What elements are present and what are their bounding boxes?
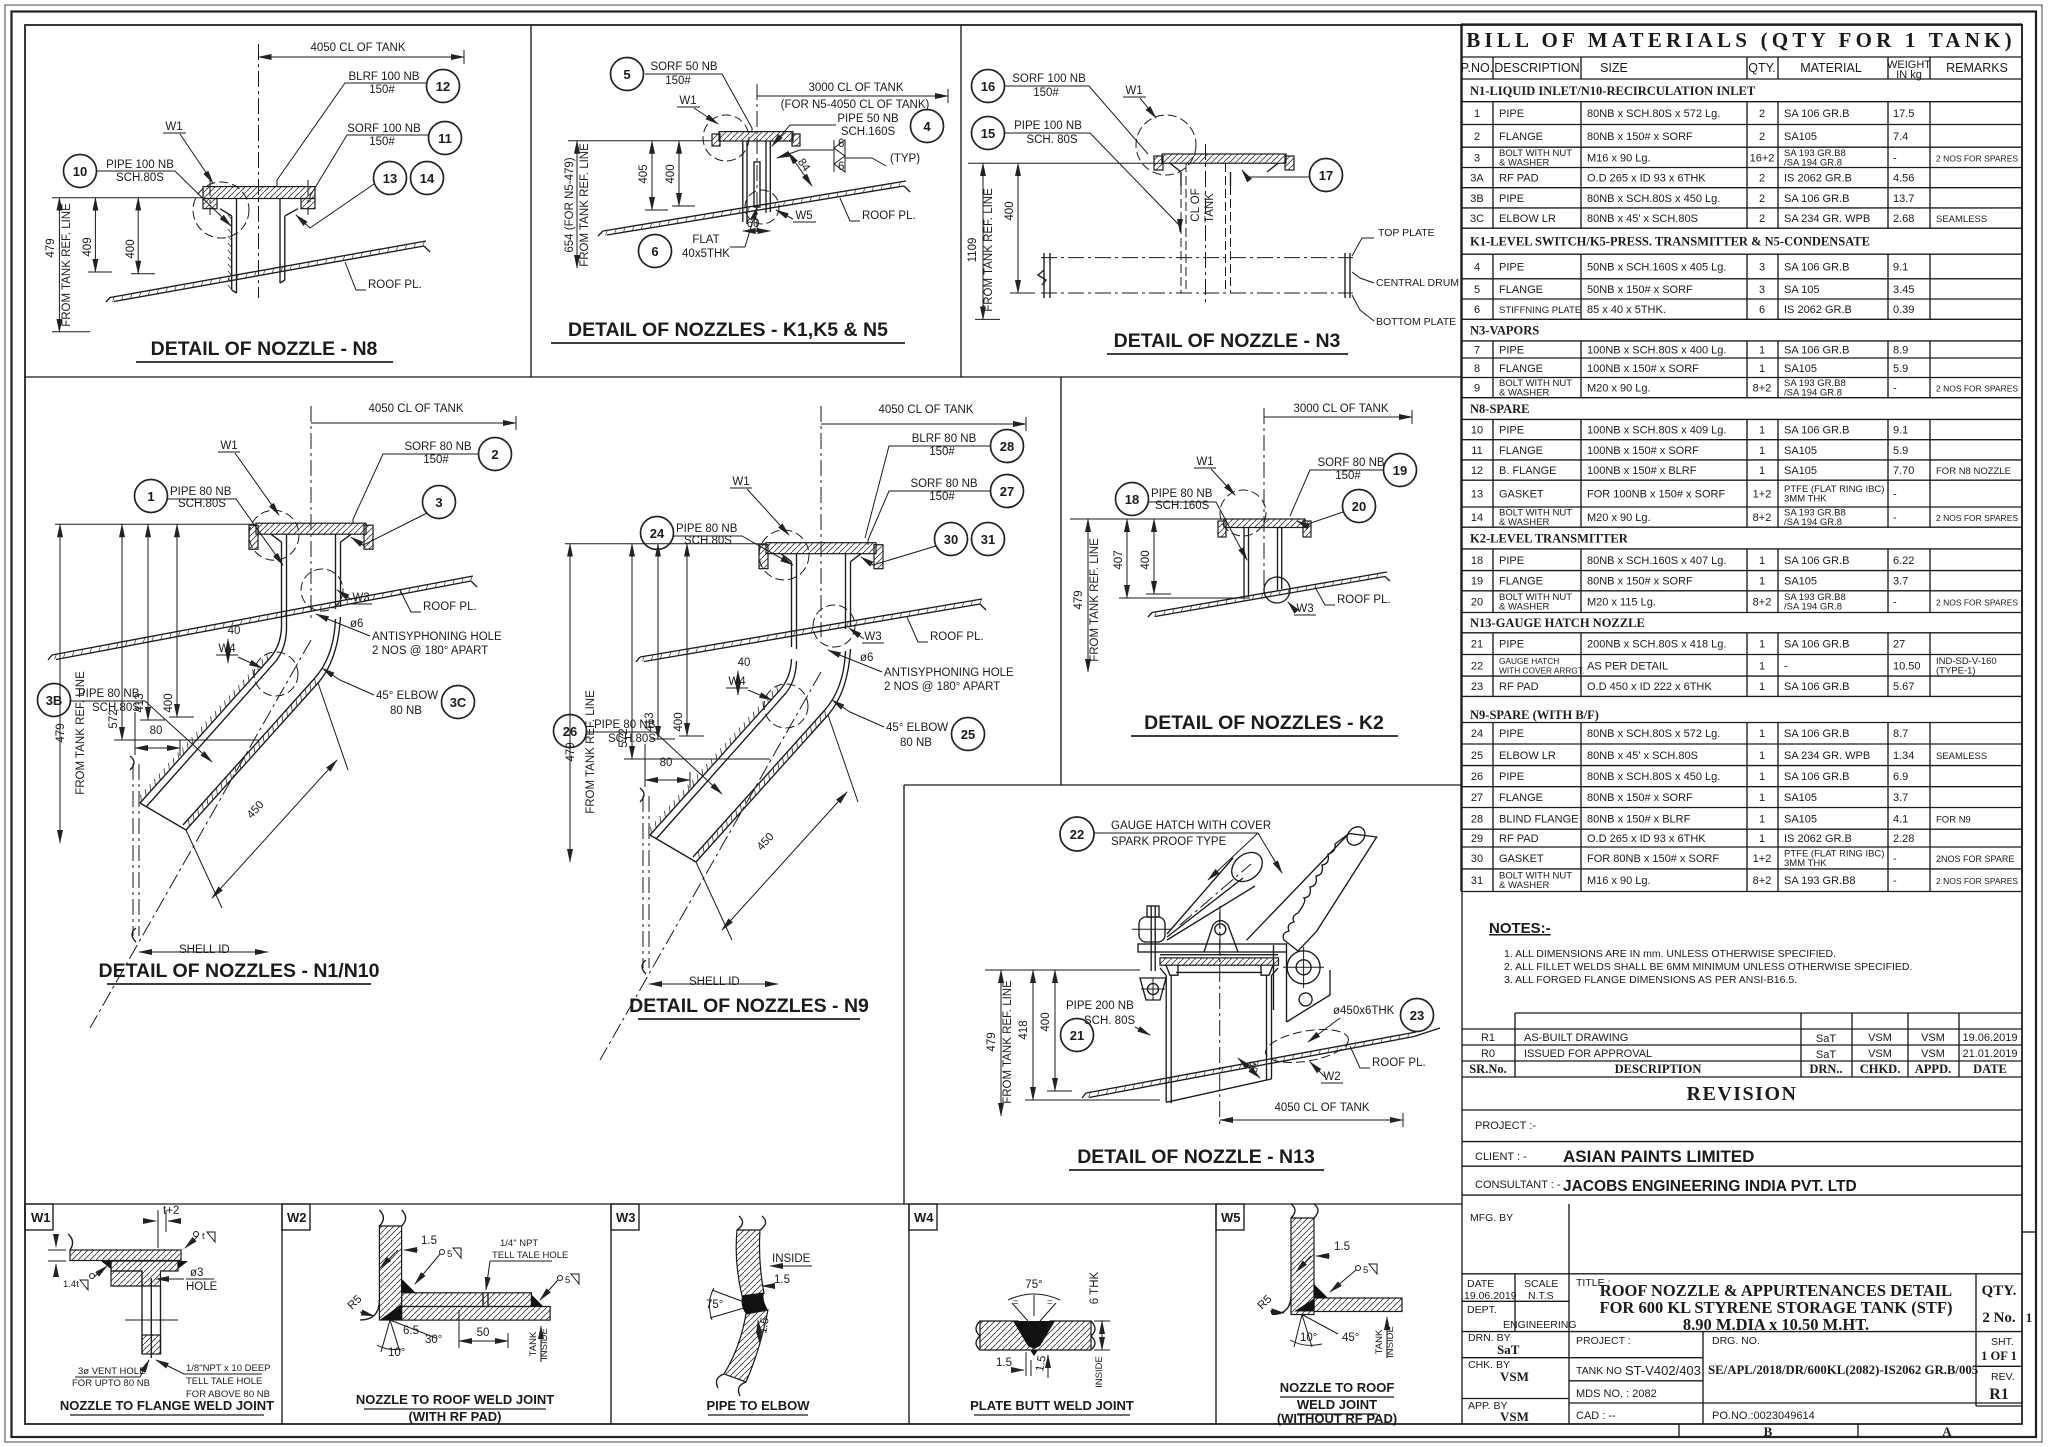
svg-text:0.39: 0.39 bbox=[1893, 304, 1914, 316]
svg-text:IS 2062 GR.B: IS 2062 GR.B bbox=[1784, 173, 1852, 185]
svg-text:ISSUED FOR APPROVAL: ISSUED FOR APPROVAL bbox=[1524, 1048, 1652, 1060]
K1 flange plate bbox=[712, 132, 800, 146]
label PIPE 100 NB SCH. 80S bbox=[1005, 120, 1180, 232]
svg-text:SA 106 GR.B: SA 106 GR.B bbox=[1784, 639, 1849, 651]
K1 roof plate bbox=[598, 181, 910, 236]
svg-text:REVISION: REVISION bbox=[1687, 1083, 1798, 1105]
dim 84 rotated bbox=[788, 152, 812, 186]
svg-text:6: 6 bbox=[838, 138, 844, 150]
svg-text:M16 x 90 Lg.: M16 x 90 Lg. bbox=[1587, 875, 1651, 887]
N1 elbow and sloped pipe bbox=[140, 617, 341, 830]
svg-text:14: 14 bbox=[1471, 512, 1483, 524]
W3 dashed circle N1 bbox=[301, 569, 343, 611]
panel divider vertical N8|K1K5N5 bbox=[530, 25, 532, 377]
balloon 14 bbox=[411, 162, 444, 195]
W4 dashed circle N1 bbox=[254, 652, 298, 696]
W4 title bbox=[970, 1398, 1134, 1415]
N1/N10: dim 4050 CL OF TANK bbox=[311, 403, 516, 430]
svg-text:40x5THK: 40x5THK bbox=[682, 248, 730, 260]
svg-text:450: 450 bbox=[245, 799, 267, 821]
W1 label o3 HOLE bbox=[156, 1267, 218, 1293]
K2 ref line bbox=[1070, 518, 1224, 520]
svg-text:CAD : --: CAD : -- bbox=[1576, 1410, 1616, 1422]
svg-text:479: 479 bbox=[565, 742, 577, 761]
W5 label box bbox=[1216, 1204, 1244, 1230]
svg-text:ROOF PL.: ROOF PL. bbox=[1372, 1057, 1426, 1069]
K2 flange plate bbox=[1218, 519, 1311, 537]
svg-text:TANK: TANK bbox=[1204, 193, 1216, 223]
W3 label INSIDE bbox=[770, 1253, 812, 1266]
zone tick right edge bbox=[2022, 1231, 2036, 1233]
W1 label box bbox=[25, 1204, 53, 1230]
label W3 N9 bbox=[849, 628, 884, 643]
svg-text:3: 3 bbox=[1759, 284, 1765, 296]
N9 dim 40 bbox=[738, 657, 751, 695]
svg-text:200NB x SCH.80S x 418 Lg.: 200NB x SCH.80S x 418 Lg. bbox=[1587, 639, 1726, 651]
svg-text:572: 572 bbox=[108, 709, 120, 728]
svg-text:/SA 194 GR.8: /SA 194 GR.8 bbox=[1784, 388, 1842, 399]
svg-text:20: 20 bbox=[1352, 499, 1366, 514]
W2 weld black triangles bbox=[402, 1279, 416, 1293]
label FLAT 40x5THK bbox=[682, 207, 757, 260]
svg-text:SE/APL/2018/DR/600KL(2082)-IS2: SE/APL/2018/DR/600KL(2082)-IS2062 GR.B/0… bbox=[1708, 1363, 1978, 1377]
svg-text:TANK: TANK bbox=[1374, 1329, 1385, 1354]
svg-text:SEAMLESS: SEAMLESS bbox=[1936, 214, 1987, 225]
svg-text:1 OF 1: 1 OF 1 bbox=[1981, 1349, 2017, 1363]
svg-text:30°: 30° bbox=[425, 1334, 442, 1346]
svg-text:PIPE 50 NB: PIPE 50 NB bbox=[837, 113, 899, 125]
svg-text:SA 193 GR.B8: SA 193 GR.B8 bbox=[1784, 875, 1856, 887]
svg-text:80NB x 150# x SORF: 80NB x 150# x SORF bbox=[1587, 576, 1693, 588]
balloon 15 bbox=[972, 117, 1005, 150]
svg-text:FLANGE: FLANGE bbox=[1499, 131, 1543, 143]
svg-text:20: 20 bbox=[1471, 597, 1483, 609]
N13 dim 40 rotated bbox=[1238, 1058, 1260, 1078]
svg-text:/SA 194 GR.8: /SA 194 GR.8 bbox=[1784, 602, 1842, 613]
svg-text:479: 479 bbox=[55, 723, 67, 742]
svg-text:-: - bbox=[1893, 875, 1897, 887]
svg-text:GASKET: GASKET bbox=[1499, 853, 1544, 865]
label W2 bbox=[1310, 1062, 1343, 1083]
K2 pipe walls bbox=[1244, 528, 1282, 598]
svg-text:100NB x 150# x SORF: 100NB x 150# x SORF bbox=[1587, 363, 1699, 375]
N13 roof plate bbox=[1082, 1028, 1440, 1098]
svg-text:TANK: TANK bbox=[528, 1331, 539, 1356]
svg-text:3MM THK: 3MM THK bbox=[1784, 858, 1827, 869]
N13 rf pad dashed ellipse bbox=[1263, 1024, 1351, 1068]
N1 sloped pipe centerline bbox=[90, 640, 311, 1028]
svg-text:13.7: 13.7 bbox=[1893, 193, 1914, 205]
svg-text:572: 572 bbox=[618, 728, 630, 747]
svg-text:22: 22 bbox=[1471, 660, 1483, 672]
svg-text:SA105: SA105 bbox=[1784, 576, 1817, 588]
svg-text:TELL TALE HOLE: TELL TALE HOLE bbox=[186, 1376, 262, 1387]
svg-text:/SA 194 GR.8: /SA 194 GR.8 bbox=[1784, 157, 1842, 168]
svg-text:80NB x 45' x SCH.80S: 80NB x 45' x SCH.80S bbox=[1587, 213, 1698, 225]
svg-text:150#: 150# bbox=[369, 84, 395, 96]
panel N8: centerline of nozzle bbox=[258, 44, 260, 298]
leader balloons 13/14 to flange bbox=[296, 184, 374, 228]
N9 shell dashed bbox=[640, 788, 649, 974]
svg-text:1: 1 bbox=[1474, 108, 1480, 120]
svg-text:45° ELBOW: 45° ELBOW bbox=[886, 722, 948, 734]
N9: dim 4050 CL OF TANK bbox=[821, 404, 1026, 431]
revision table grid bbox=[1462, 1013, 2022, 1110]
svg-text:3000 CL OF TANK: 3000 CL OF TANK bbox=[1293, 403, 1388, 415]
label SHELL ID N9 bbox=[649, 976, 778, 988]
svg-text:4: 4 bbox=[1474, 262, 1480, 274]
svg-text:ROOF PL.: ROOF PL. bbox=[862, 210, 916, 222]
balloon 13 bbox=[374, 162, 407, 195]
balloon 24 bbox=[641, 517, 674, 550]
svg-text:30: 30 bbox=[944, 532, 958, 547]
svg-text:SA105: SA105 bbox=[1784, 363, 1817, 375]
svg-text:405: 405 bbox=[638, 164, 650, 183]
svg-text:W2: W2 bbox=[287, 1210, 307, 1225]
K1 dim 654 bbox=[564, 141, 591, 268]
W2 label TANK INSIDE bbox=[528, 1326, 550, 1362]
svg-text:ELBOW LR: ELBOW LR bbox=[1499, 750, 1556, 762]
svg-text:3: 3 bbox=[1759, 262, 1765, 274]
svg-text:A: A bbox=[1942, 1424, 1952, 1439]
W3 label box bbox=[611, 1204, 639, 1230]
svg-text:3ø VENT HOLE: 3ø VENT HOLE bbox=[78, 1366, 145, 1377]
W5 weld flag 5 bbox=[1330, 1264, 1377, 1292]
svg-text:BILL OF MATERIALS (QTY FOR 1 T: BILL OF MATERIALS (QTY FOR 1 TANK) bbox=[1466, 28, 2016, 52]
svg-text:1. ALL DIMENSIONS ARE IN: 1. ALL DIMENSIONS ARE IN mm. UNLESS OTHE… bbox=[1504, 948, 1836, 960]
K1 pipe walls bbox=[743, 141, 771, 224]
svg-text:80NB x 150# x SORF: 80NB x 150# x SORF bbox=[1587, 131, 1693, 143]
BOM section bands bbox=[1470, 84, 1870, 722]
svg-text:SaT: SaT bbox=[1497, 1342, 1520, 1357]
weld row divider W3|W4 bbox=[908, 1204, 910, 1424]
svg-text:PIPE: PIPE bbox=[1499, 344, 1524, 356]
svg-text:(WITHOUT RF PAD): (WITHOUT RF PAD) bbox=[1277, 1411, 1397, 1426]
roof plate hatch ticks N1 bbox=[55, 182, 1409, 1098]
svg-text:2: 2 bbox=[1759, 193, 1765, 205]
svg-text:AS-BUILT DRAWING: AS-BUILT DRAWING bbox=[1524, 1032, 1628, 1044]
svg-text:24: 24 bbox=[650, 526, 665, 541]
N8 ref line bbox=[52, 197, 203, 199]
svg-text:1: 1 bbox=[1759, 792, 1765, 804]
svg-text:19.06.2019: 19.06.2019 bbox=[1962, 1032, 2017, 1044]
svg-text:1.34: 1.34 bbox=[1893, 750, 1914, 762]
svg-text:2. ALL FILLET WELDS SHALL: 2. ALL FILLET WELDS SHALL BE 6MM MINIMUM… bbox=[1504, 961, 1912, 973]
svg-text:9.1: 9.1 bbox=[1893, 425, 1908, 437]
svg-text:PIPE 80 NB: PIPE 80 NB bbox=[1151, 488, 1213, 500]
svg-text:8.90 M.DIA x 10.50 M.HT.: 8.90 M.DIA x 10.50 M.HT. bbox=[1683, 1315, 1869, 1334]
N13 neck pipe bbox=[1160, 968, 1278, 1103]
svg-text:SA 106 GR.B: SA 106 GR.B bbox=[1784, 728, 1849, 740]
svg-text:(WITH RF PAD): (WITH RF PAD) bbox=[409, 1409, 502, 1424]
zone tick bottom bbox=[1857, 1424, 1859, 1437]
svg-text:VSM: VSM bbox=[1921, 1032, 1945, 1044]
svg-text:80NB x SCH.80S x 572 Lg.: 80NB x SCH.80S x 572 Lg. bbox=[1587, 728, 1720, 740]
svg-text:GAUGE HATCH WITH COVER: GAUGE HATCH WITH COVER bbox=[1111, 820, 1271, 832]
svg-text:4050 CL OF TANK: 4050 CL OF TANK bbox=[368, 403, 463, 415]
svg-text:5.67: 5.67 bbox=[1893, 681, 1914, 693]
svg-text:MATERIAL: MATERIAL bbox=[1800, 61, 1862, 75]
K1 centerline bbox=[756, 84, 758, 232]
svg-text:PIPE 100 NB: PIPE 100 NB bbox=[1014, 120, 1082, 132]
svg-text:FLAT: FLAT bbox=[692, 234, 719, 246]
svg-text:M16 x 90 Lg.: M16 x 90 Lg. bbox=[1587, 152, 1651, 164]
svg-text:413: 413 bbox=[134, 693, 146, 712]
label PIPE 80 NB SCH.80S (N1 lower) bbox=[71, 688, 212, 762]
svg-text:21: 21 bbox=[1070, 1028, 1084, 1043]
label PIPE 200 NB SCH. 80S bbox=[1066, 1000, 1150, 1035]
svg-text:DATE: DATE bbox=[1973, 1062, 2007, 1076]
svg-text:SORF 100 NB: SORF 100 NB bbox=[1012, 73, 1086, 85]
balloon 26 bbox=[554, 715, 587, 748]
svg-text:7.4: 7.4 bbox=[1893, 131, 1908, 143]
N13 gauge hatch cover assembly bbox=[1132, 823, 1377, 1022]
label W1 N1/N10 bbox=[218, 440, 279, 515]
balloon 16 bbox=[972, 70, 1005, 103]
svg-text:W3: W3 bbox=[352, 592, 369, 604]
svg-text:DRG. NO.: DRG. NO. bbox=[1712, 1335, 1760, 1347]
W5 label R5 bbox=[1256, 1293, 1284, 1313]
N9 sloped pipe hatch ticks bbox=[651, 686, 826, 859]
svg-text:FLANGE: FLANGE bbox=[1499, 792, 1543, 804]
svg-text:12: 12 bbox=[1471, 465, 1483, 477]
svg-text:O.D 265 x ID 93 x 6THK: O.D 265 x ID 93 x 6THK bbox=[1587, 833, 1706, 845]
N13 dim 479 bbox=[986, 970, 1014, 1116]
N3 title bbox=[1107, 330, 1348, 354]
W1 label 3o VENT HOLE bbox=[72, 1360, 150, 1389]
svg-text:1.5: 1.5 bbox=[774, 1274, 790, 1286]
svg-text:IS 2062 GR.B: IS 2062 GR.B bbox=[1784, 304, 1852, 316]
svg-text:6.5: 6.5 bbox=[403, 1325, 419, 1337]
svg-text:2 NOS @ 180° APART: 2 NOS @ 180° APART bbox=[372, 645, 488, 657]
N9 dim 413 bbox=[644, 544, 675, 739]
balloon 19 bbox=[1384, 454, 1417, 487]
svg-text:N3-VAPORS: N3-VAPORS bbox=[1470, 324, 1539, 338]
svg-text:4.1: 4.1 bbox=[1893, 813, 1908, 825]
svg-text:SCH.80S: SCH.80S bbox=[684, 535, 732, 547]
svg-text:PIPE: PIPE bbox=[1499, 728, 1524, 740]
N13 dim 4050 CL OF TANK bbox=[1220, 1102, 1403, 1127]
svg-text:NOZZLE TO ROOF: NOZZLE TO ROOF bbox=[1280, 1380, 1395, 1395]
svg-text:50NB x SCH.160S x 405 Lg.: 50NB x SCH.160S x 405 Lg. bbox=[1587, 262, 1726, 274]
svg-text:17: 17 bbox=[1319, 168, 1333, 183]
svg-text:2: 2 bbox=[1759, 131, 1765, 143]
W5 fillet R5 bbox=[1272, 1295, 1291, 1315]
panel divider vertical K1K5N5|N3 bbox=[960, 25, 962, 377]
svg-text:1: 1 bbox=[1759, 681, 1765, 693]
svg-text:BLIND FLANGE: BLIND FLANGE bbox=[1499, 813, 1578, 825]
label PIPE 50 NB SCH.160S bbox=[772, 113, 899, 146]
W1 flange body bbox=[111, 1261, 178, 1286]
svg-text:W1: W1 bbox=[679, 95, 696, 107]
svg-text:100NB x SCH.80S x 409 Lg.: 100NB x SCH.80S x 409 Lg. bbox=[1587, 425, 1726, 437]
svg-text:16+2: 16+2 bbox=[1750, 152, 1775, 164]
svg-text:SA105: SA105 bbox=[1784, 792, 1817, 804]
svg-text:& WASHER: & WASHER bbox=[1499, 880, 1549, 891]
svg-text:W1: W1 bbox=[165, 121, 182, 133]
svg-text:1+2: 1+2 bbox=[1753, 853, 1772, 865]
weld row divider W2|W3 bbox=[610, 1204, 612, 1424]
svg-text:18: 18 bbox=[1125, 492, 1139, 507]
label ROOF PL. N8 bbox=[345, 262, 422, 291]
N3 flange plate bbox=[1154, 154, 1294, 172]
svg-text:=: = bbox=[1013, 1297, 1019, 1308]
svg-text:150#: 150# bbox=[1335, 470, 1361, 482]
svg-text:1: 1 bbox=[2026, 1310, 2033, 1325]
svg-text:MDS NO. : 2082: MDS NO. : 2082 bbox=[1576, 1388, 1657, 1400]
label W1 K1 bbox=[677, 95, 718, 124]
svg-text:2: 2 bbox=[1759, 213, 1765, 225]
svg-text:19.06.2019: 19.06.2019 bbox=[1464, 1290, 1517, 1302]
svg-text:SPARK PROOF TYPE: SPARK PROOF TYPE bbox=[1111, 836, 1227, 848]
svg-text:2: 2 bbox=[1474, 131, 1480, 143]
svg-text:HOLE: HOLE bbox=[186, 1281, 218, 1293]
svg-text:100NB x 150# x BLRF: 100NB x 150# x BLRF bbox=[1587, 465, 1697, 477]
svg-text:FLANGE: FLANGE bbox=[1499, 576, 1543, 588]
svg-text:2 NOS FOR SPARES: 2 NOS FOR SPARES bbox=[1936, 598, 2018, 608]
N9 pipe walls bbox=[792, 554, 851, 649]
svg-text:APPD.: APPD. bbox=[1915, 1062, 1951, 1076]
W2 label 1/4 NPT TELL TALE HOLE bbox=[486, 1238, 568, 1290]
svg-text:ø450x6THK: ø450x6THK bbox=[1333, 1005, 1395, 1017]
N9 elbow and sloped pipe bbox=[650, 649, 851, 862]
project row bbox=[1462, 1141, 2022, 1143]
W5 roof plate bbox=[1314, 1298, 1402, 1312]
svg-text:W4: W4 bbox=[914, 1210, 934, 1225]
svg-text:100NB x 150# x SORF: 100NB x 150# x SORF bbox=[1587, 445, 1699, 457]
svg-text:1: 1 bbox=[1759, 445, 1765, 457]
svg-text:(FOR N5-4050 CL OF TANK): (FOR N5-4050 CL OF TANK) bbox=[781, 99, 930, 111]
svg-text:7.70: 7.70 bbox=[1893, 465, 1914, 477]
svg-text:5: 5 bbox=[565, 1275, 570, 1286]
svg-text:REMARKS: REMARKS bbox=[1946, 61, 2008, 75]
svg-text:13: 13 bbox=[383, 171, 397, 186]
svg-text:6: 6 bbox=[1759, 304, 1765, 316]
svg-text:23: 23 bbox=[1410, 1008, 1424, 1023]
label PIPE 80 NB SCH.160S K2 bbox=[1149, 488, 1247, 560]
svg-text:3MM THK: 3MM THK bbox=[1784, 494, 1827, 505]
W5 nozzle wall bbox=[1291, 1204, 1318, 1315]
svg-text:6 THK: 6 THK bbox=[1089, 1271, 1101, 1304]
svg-text:SCH.80S: SCH.80S bbox=[178, 498, 226, 510]
svg-text:W5: W5 bbox=[795, 210, 812, 222]
N8 pipe walls bbox=[232, 199, 285, 294]
label SORF 100 NB 150# N3 bbox=[1005, 73, 1148, 154]
svg-text:5.9: 5.9 bbox=[1893, 445, 1908, 457]
K1 dim 405 bbox=[638, 141, 668, 210]
svg-text:40: 40 bbox=[228, 625, 241, 637]
svg-text:1: 1 bbox=[1759, 833, 1765, 845]
N9 flange plate bbox=[759, 543, 883, 569]
W3 pipe wall upper bbox=[736, 1216, 765, 1296]
svg-text:1: 1 bbox=[1759, 465, 1765, 477]
label W4 N9 bbox=[726, 676, 772, 700]
svg-text:CENTRAL DRUM: CENTRAL DRUM bbox=[1376, 277, 1459, 289]
svg-text:M20 x 90 Lg.: M20 x 90 Lg. bbox=[1587, 383, 1651, 395]
svg-text:3A: 3A bbox=[1470, 173, 1484, 185]
svg-text:MFG. BY: MFG. BY bbox=[1470, 1212, 1513, 1224]
svg-text:ROOF PL.: ROOF PL. bbox=[1337, 594, 1391, 606]
svg-text:21: 21 bbox=[1471, 639, 1483, 651]
svg-text:BOTTOM PLATE: BOTTOM PLATE bbox=[1376, 316, 1456, 328]
weld row divider W4|W5 bbox=[1215, 1204, 1217, 1424]
svg-text:1.5: 1.5 bbox=[421, 1235, 437, 1247]
W4 dim 6 THK bbox=[1089, 1271, 1110, 1350]
balloon 30 bbox=[935, 523, 968, 556]
W4 label INSIDE rotated bbox=[1094, 1356, 1105, 1388]
svg-text:400: 400 bbox=[1004, 201, 1016, 220]
W1 dashed circle N3 bbox=[1136, 115, 1196, 175]
svg-text:-: - bbox=[1784, 660, 1788, 672]
svg-text:1: 1 bbox=[1759, 660, 1765, 672]
svg-text:3.7: 3.7 bbox=[1893, 792, 1908, 804]
svg-text:-: - bbox=[1893, 512, 1897, 524]
svg-text:SCH. 80S: SCH. 80S bbox=[1026, 134, 1077, 146]
svg-text:DEPT.: DEPT. bbox=[1467, 1304, 1497, 1316]
svg-text:TANK NO: TANK NO bbox=[1576, 1365, 1622, 1377]
balloon 5 bbox=[611, 58, 644, 91]
svg-text:80NB x SCH.80S x 450 Lg.: 80NB x SCH.80S x 450 Lg. bbox=[1587, 771, 1720, 783]
svg-text:2.28: 2.28 bbox=[1893, 833, 1914, 845]
svg-text:ELBOW LR: ELBOW LR bbox=[1499, 213, 1556, 225]
W2 tell tale hole bbox=[483, 1293, 488, 1307]
svg-text:VSM: VSM bbox=[1868, 1048, 1892, 1060]
svg-text:479: 479 bbox=[45, 238, 57, 257]
svg-text:5: 5 bbox=[1474, 284, 1480, 296]
svg-text:3B: 3B bbox=[1470, 193, 1483, 205]
N8 dim 409 bbox=[82, 198, 112, 272]
svg-text:SORF 80 NB: SORF 80 NB bbox=[910, 478, 977, 490]
W5 label TANK INSIDE bbox=[1374, 1317, 1396, 1358]
K2 centerline bbox=[1263, 408, 1265, 592]
svg-text:150#: 150# bbox=[929, 491, 955, 503]
svg-text:NOZZLE TO FLANGE WELD JOINT: NOZZLE TO FLANGE WELD JOINT bbox=[60, 1398, 274, 1413]
balloon 31 bbox=[972, 523, 1005, 556]
label SORF 80 NB 150# N9 bbox=[868, 478, 990, 545]
revision row R1 bbox=[1481, 1032, 2018, 1061]
svg-text:W1: W1 bbox=[31, 1210, 51, 1225]
N8 title bbox=[136, 338, 393, 362]
panel divider horizontal N13 top bbox=[904, 784, 1462, 786]
svg-text:ø6: ø6 bbox=[860, 652, 873, 664]
svg-text:2 NOS FOR SPARES: 2 NOS FOR SPARES bbox=[1936, 384, 2018, 394]
svg-text:2: 2 bbox=[1759, 108, 1765, 120]
svg-text:W2: W2 bbox=[1323, 1071, 1340, 1083]
label ROOF PL. K1 bbox=[840, 198, 916, 222]
svg-text:1: 1 bbox=[1759, 576, 1765, 588]
W2 label box bbox=[282, 1204, 310, 1230]
dim 60 bbox=[743, 218, 771, 231]
svg-text:150#: 150# bbox=[929, 446, 955, 458]
svg-text:BLRF 100 NB: BLRF 100 NB bbox=[349, 71, 420, 83]
balloon 1 bbox=[135, 480, 168, 513]
svg-text:23: 23 bbox=[1471, 681, 1483, 693]
balloon 6 bbox=[639, 235, 672, 268]
svg-text:FROM TANK REF. LINE: FROM TANK REF. LINE bbox=[585, 690, 597, 814]
K2 dim 400 bbox=[1140, 519, 1171, 594]
svg-text:18: 18 bbox=[1471, 555, 1483, 567]
svg-text:W5: W5 bbox=[1221, 1210, 1241, 1225]
label antisyphoning hole N9 bbox=[828, 650, 1014, 693]
W1 neck walls bbox=[125, 1278, 178, 1358]
label SORF 80 NB 150# K2 bbox=[1290, 457, 1385, 516]
N8 roof plate bbox=[106, 241, 430, 302]
dim 3000 CL OF TANK bbox=[757, 82, 948, 111]
svg-text:PROJECT :-: PROJECT :- bbox=[1475, 1120, 1536, 1132]
svg-text:ST-V402/403: ST-V402/403 bbox=[1625, 1363, 1701, 1378]
balloon 21 bbox=[1061, 1019, 1094, 1052]
svg-text:1/4" NPT: 1/4" NPT bbox=[500, 1238, 538, 1249]
